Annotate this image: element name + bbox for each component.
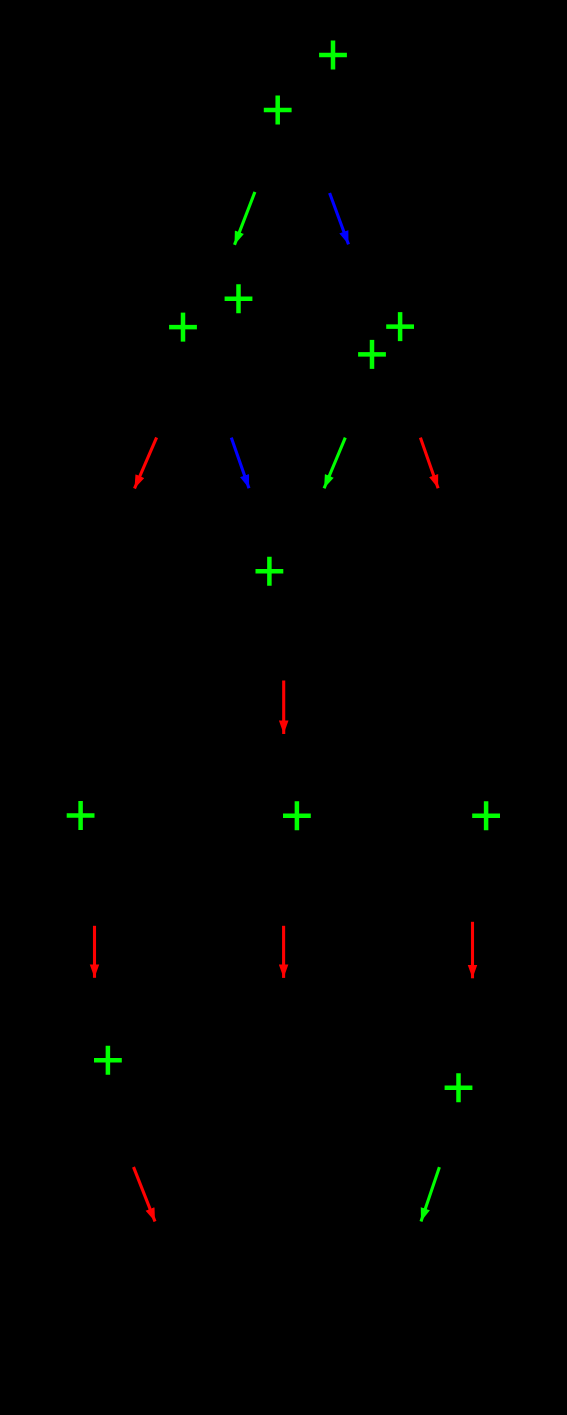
plus marker P1 bbox=[319, 41, 347, 70]
arrow A8 red vertical bbox=[93, 926, 96, 978]
arrow A7 red vertical bbox=[282, 681, 285, 735]
arrow A9 red vertical bbox=[282, 926, 285, 978]
arrow A11 red bbox=[134, 1167, 156, 1222]
arrow A3 red bbox=[135, 438, 157, 489]
plus marker P10 bbox=[472, 801, 500, 830]
plus marker P3 bbox=[225, 284, 253, 313]
plus marker P7 bbox=[256, 557, 284, 586]
plus marker P2 bbox=[264, 96, 292, 125]
arrow A10 red vertical bbox=[471, 922, 474, 979]
plus marker P12 bbox=[445, 1073, 473, 1102]
plus marker P11 bbox=[94, 1046, 122, 1075]
arrow A1 green bbox=[235, 192, 255, 245]
arrow A5 green bbox=[324, 438, 345, 489]
plus marker P5 bbox=[386, 312, 414, 341]
arrow A6 red bbox=[420, 438, 438, 489]
arrow A12 green bbox=[421, 1167, 439, 1221]
plus marker P9 bbox=[283, 801, 311, 830]
arrow A2 blue bbox=[330, 193, 349, 244]
plus marker P6 bbox=[358, 340, 386, 369]
arrow A4 blue bbox=[231, 438, 249, 489]
plus marker P8 bbox=[67, 801, 95, 830]
plus marker P4 bbox=[169, 313, 197, 342]
